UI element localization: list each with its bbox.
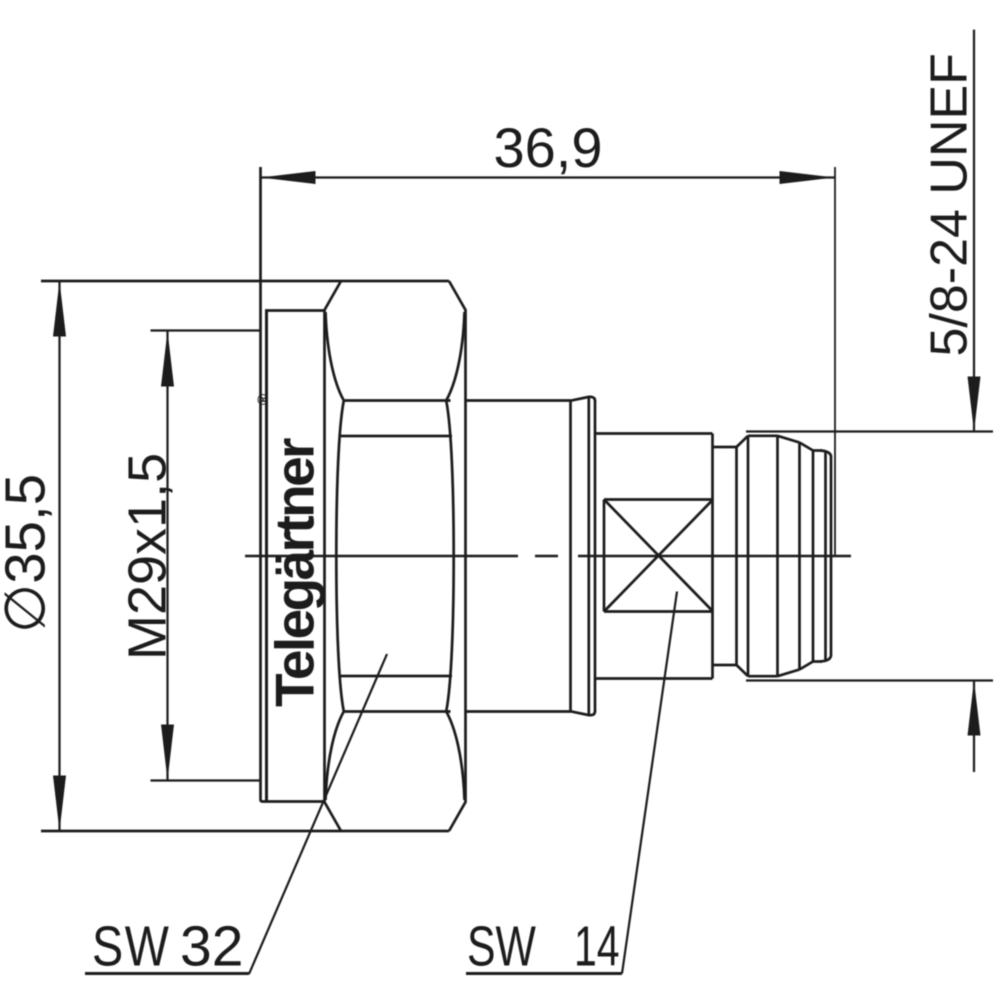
- svg-text:5/8-24 UNEF: 5/8-24 UNEF: [921, 53, 979, 356]
- svg-text:SW: SW: [467, 913, 536, 977]
- svg-text:M29x1,5: M29x1,5: [118, 453, 178, 660]
- svg-text:®: ®: [255, 394, 272, 405]
- svg-text:32: 32: [180, 915, 243, 979]
- svg-text:Telegärtner: Telegärtner: [264, 438, 326, 707]
- svg-text:14: 14: [574, 914, 620, 978]
- svg-text:∅35,5: ∅35,5: [0, 474, 57, 633]
- svg-text:36,9: 36,9: [494, 116, 603, 179]
- svg-text:SW: SW: [92, 915, 171, 978]
